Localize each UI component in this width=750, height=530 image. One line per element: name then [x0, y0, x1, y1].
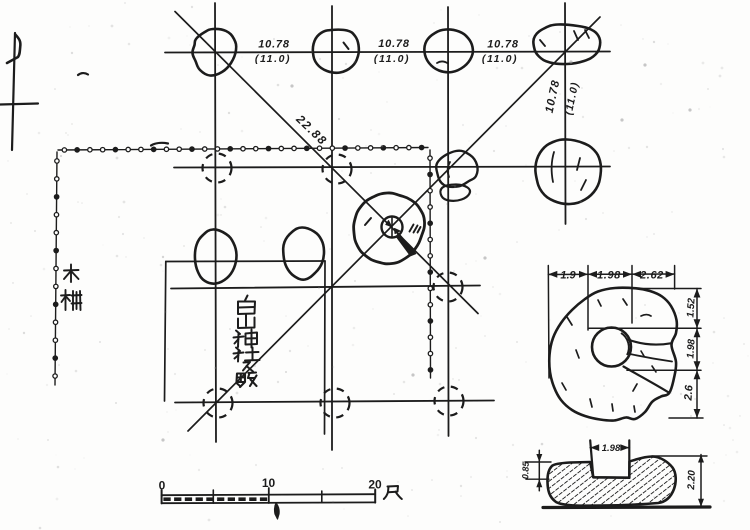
small mark: [151, 143, 168, 146]
stone 7: [195, 229, 237, 283]
detail channel inner tick: [641, 351, 656, 372]
stone 2: [313, 30, 359, 73]
north arrow: [0, 33, 38, 150]
dim text 10.78 C: [487, 39, 519, 51]
detail dim extension v3: [631, 266, 633, 324]
detail right extension h4: [669, 417, 703, 419]
kanji 尺 (shaku unit): [384, 486, 402, 499]
central stone: [354, 193, 425, 264]
detail top dimension line: [548, 271, 674, 278]
central stone pivot circle: [382, 217, 403, 238]
detail dim extension v4: [674, 266, 676, 290]
svg-text:20: 20: [368, 478, 382, 492]
detail channel middle line: [630, 354, 672, 362]
cross-section dim text 0.85 rotated: [520, 460, 531, 479]
detail dim extension v2: [587, 266, 589, 331]
svg-text:0: 0: [159, 479, 166, 493]
stone 8: [283, 227, 324, 279]
cross-section dim text 1.98: [602, 443, 621, 454]
svg-text:(11.0): (11.0): [255, 53, 291, 65]
dim text (11.0) C: [482, 53, 518, 65]
svg-text:2.6: 2.6: [682, 384, 695, 402]
scale text 0: [159, 479, 166, 493]
stone 5: [535, 139, 601, 204]
grid line h1: [165, 52, 610, 53]
cross-section left dim 0.85: [525, 450, 551, 491]
detail dim text 1.52 rotated: [685, 297, 697, 318]
scale text 10: [262, 476, 276, 490]
svg-text:(11.0): (11.0): [482, 53, 518, 65]
detail right extension h2: [589, 327, 701, 329]
grid line h3: [171, 286, 480, 289]
svg-text:10.78: 10.78: [378, 38, 410, 50]
dashed circle 4: [204, 389, 233, 418]
kanji 殿: [237, 373, 257, 388]
cross-section stone: [547, 457, 675, 506]
detail dim text 2.62: [639, 270, 664, 282]
dim text 22.88 rotated: [293, 111, 330, 148]
detail dim text 2.6 rotated: [682, 384, 695, 402]
cross-section hatch pattern: [0, 0, 1, 1]
svg-text:10.78: 10.78: [487, 39, 519, 51]
fence bead line horizontal: [58, 145, 428, 152]
cross-section notch bottom: [593, 476, 629, 479]
fence bead line right vertical: [428, 150, 433, 378]
grid line h2: [174, 167, 610, 168]
detail channel lower line: [624, 367, 670, 393]
svg-text:22.88: 22.88: [293, 111, 330, 148]
grid line v1: [215, 3, 216, 442]
dashed circle 6: [435, 387, 464, 416]
stone 3: [424, 29, 473, 72]
diagonal NE-SW 22.88: [188, 17, 600, 431]
dim text 10.78 D rotated: [544, 79, 563, 115]
detail right extension h3: [627, 369, 701, 371]
grid line v3: [447, 7, 450, 436]
stone 4: [533, 24, 600, 64]
dashed circle 3: [434, 273, 463, 302]
scan speck: [161, 60, 691, 441]
grid line v4: [564, 3, 567, 224]
svg-text:1.98: 1.98: [597, 270, 621, 282]
kanji 社: [234, 348, 260, 362]
detail stone texture: [562, 299, 651, 412]
svg-text:1.52: 1.52: [685, 297, 697, 318]
cross-section notch dim line: [590, 444, 629, 451]
dim text (11.0) A: [255, 53, 291, 65]
dim text (11.0) D rotated: [563, 81, 582, 117]
small mark: [78, 73, 88, 75]
svg-text:2.20: 2.20: [686, 470, 698, 491]
kanji 山: [238, 315, 255, 329]
kanji 神: [234, 330, 258, 348]
detail right dimension line: [694, 289, 701, 419]
stone 1: [192, 29, 236, 76]
detail dim text 1.9: [560, 270, 576, 282]
cross-section dim text 2.20 rotated: [686, 470, 698, 491]
central stone dark wedge: [397, 234, 416, 256]
dim text 10.78 A: [258, 39, 290, 51]
diagonal NW-SE 22.88: [175, 12, 478, 314]
building outline left edge: [165, 262, 166, 402]
detail stone outline: [549, 288, 677, 421]
scale text 20: [368, 478, 382, 492]
detail dim extension v1: [547, 266, 550, 379]
dim text (11.0) B: [374, 53, 410, 65]
building outline right edge: [324, 261, 327, 434]
svg-text:1.9: 1.9: [560, 270, 576, 282]
cross-section notch left wall: [590, 440, 593, 477]
detail dim text 1.98 rotated: [685, 338, 697, 359]
stone 6: [436, 151, 477, 201]
cross-section notch right wall: [628, 440, 630, 477]
svg-text:(11.0): (11.0): [374, 53, 410, 65]
svg-text:0.85: 0.85: [520, 460, 531, 479]
building outline top edge: [166, 260, 325, 263]
detail channel upper line: [628, 340, 671, 345]
dim text 10.78 B: [378, 38, 410, 50]
svg-text:10.78: 10.78: [544, 79, 563, 115]
kanji 白 (shrine label): [238, 296, 255, 315]
svg-text:10: 10: [262, 476, 276, 490]
repetition mark 々: [243, 362, 253, 372]
svg-text:2.62: 2.62: [639, 270, 664, 282]
svg-text:10.78: 10.78: [258, 39, 290, 51]
central stone surface dash: [365, 218, 371, 225]
svg-text:1.98: 1.98: [602, 443, 621, 454]
scale bar: [162, 488, 376, 519]
fence bead line left vertical: [53, 152, 59, 385]
detail dim text 1.98: [597, 270, 621, 282]
svg-text:1.98: 1.98: [685, 338, 697, 359]
grid line h4: [175, 401, 494, 403]
dashed circle 1: [203, 154, 232, 183]
kanji 木 (fence label): [64, 265, 79, 283]
dashed circle 5: [321, 389, 350, 418]
grid line v2: [331, 6, 333, 450]
dashed circle 2: [323, 155, 352, 184]
kanji 柵: [61, 290, 82, 310]
central stone hatch marks: [410, 225, 421, 233]
cross-section right dim 2.20: [633, 455, 710, 507]
detail right extension h1: [636, 288, 701, 290]
cross-section ground line: [543, 505, 710, 509]
detail stone pivot hole: [592, 328, 631, 367]
